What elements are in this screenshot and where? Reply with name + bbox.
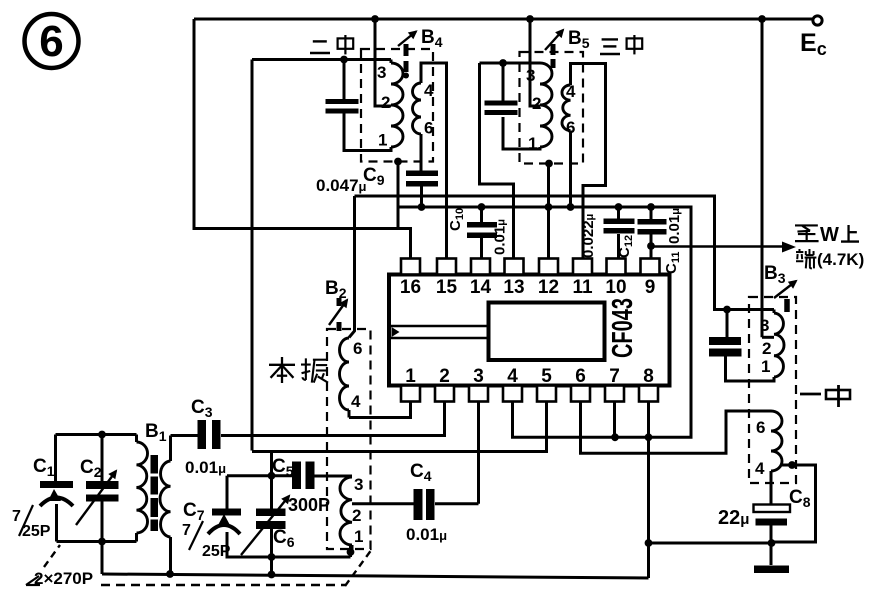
svg-text:7: 7 [609,366,620,387]
svg-text:6: 6 [575,366,586,387]
svg-text:3: 3 [377,63,386,82]
svg-text:12: 12 [538,277,559,298]
svg-text:16: 16 [400,277,421,298]
svg-text:0.01μ: 0.01μ [406,525,447,544]
svg-text:2: 2 [532,94,541,113]
svg-text:2: 2 [439,366,450,387]
svg-text:6: 6 [566,118,575,137]
svg-text:10: 10 [605,277,626,298]
svg-text:14: 14 [470,277,492,298]
svg-text:9: 9 [645,277,656,298]
svg-text:0.047μ: 0.047μ [316,176,367,195]
svg-text:7: 7 [182,522,191,539]
svg-text:CF043: CF043 [607,298,639,358]
svg-text:3: 3 [354,475,363,494]
svg-text:15: 15 [436,277,458,298]
svg-text:0.01μ: 0.01μ [185,458,226,477]
svg-text:13: 13 [503,277,524,298]
svg-text:3: 3 [760,316,769,335]
svg-text:2: 2 [352,506,361,525]
svg-text:7: 7 [12,508,21,525]
svg-text:2×270P: 2×270P [34,569,93,588]
svg-text:3: 3 [526,66,535,85]
svg-text:1: 1 [354,527,363,546]
svg-text:W: W [820,224,839,246]
svg-text:22μ: 22μ [718,507,749,529]
svg-text:1: 1 [761,357,770,376]
svg-text:1: 1 [405,366,416,387]
svg-text:5: 5 [541,366,552,387]
svg-text:300P: 300P [288,495,330,515]
svg-text:4: 4 [566,82,576,101]
svg-text:25P: 25P [22,523,51,540]
svg-text:11: 11 [572,277,593,298]
svg-text:1: 1 [528,134,537,153]
svg-text:2: 2 [762,339,771,358]
svg-text:25P: 25P [202,543,231,560]
svg-text:(4.7K): (4.7K) [817,250,864,269]
svg-text:6: 6 [39,17,63,66]
svg-text:4: 4 [507,366,518,387]
svg-text:4: 4 [424,81,434,100]
svg-text:1: 1 [378,131,387,150]
svg-text:6: 6 [353,339,362,358]
svg-text:4: 4 [755,459,765,478]
svg-text:6: 6 [424,119,433,138]
svg-text:4: 4 [351,392,361,411]
svg-text:6: 6 [756,418,765,437]
svg-text:8: 8 [643,366,654,387]
svg-text:3: 3 [473,366,484,387]
svg-text:2: 2 [381,93,390,112]
